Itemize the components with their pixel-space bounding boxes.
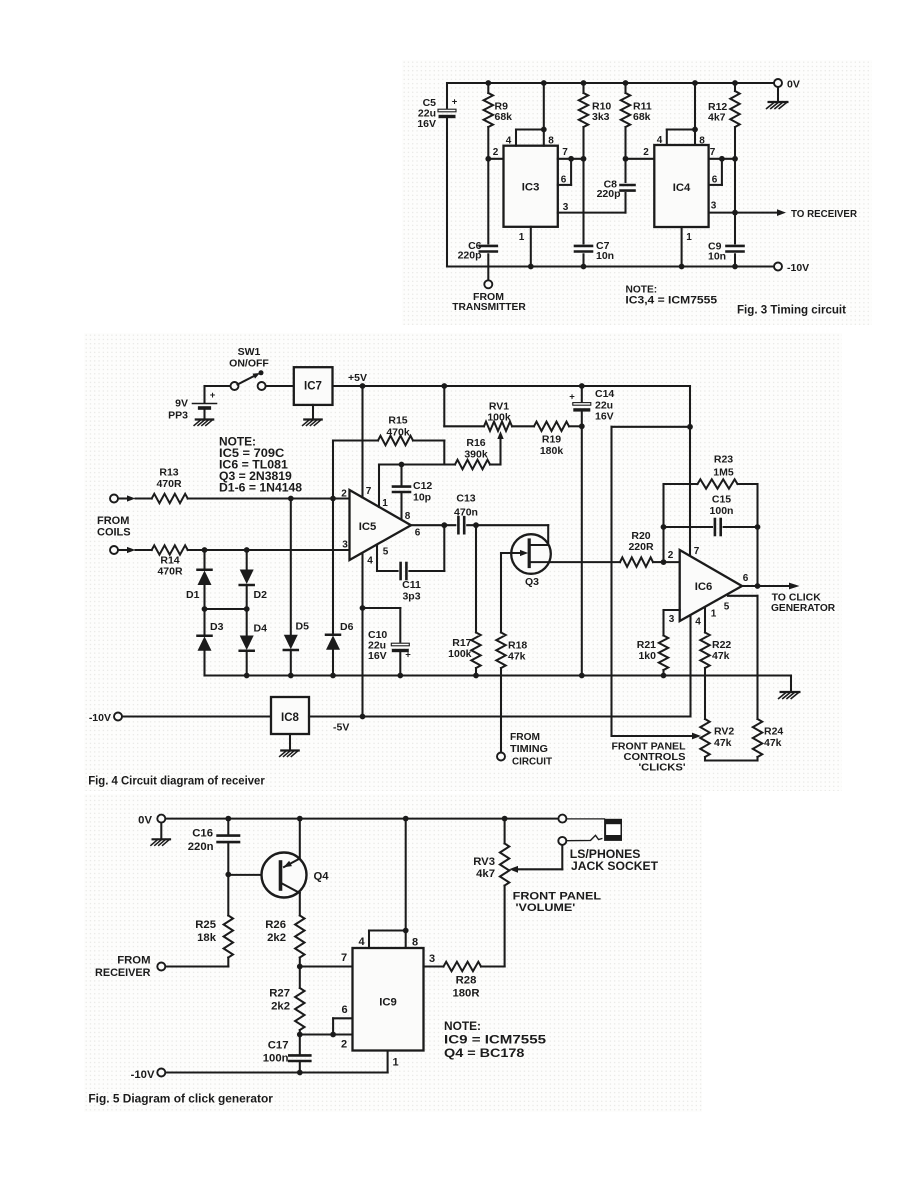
capacitor C5 xyxy=(417,83,457,267)
capacitor C11 xyxy=(377,525,444,602)
wire pin6 IC3 xyxy=(558,159,571,186)
svg-text:COILS: COILS xyxy=(97,527,131,539)
wire pin2 IC4 xyxy=(626,147,655,159)
svg-text:3: 3 xyxy=(711,201,717,212)
ground battery xyxy=(194,420,213,426)
capacitor C14 xyxy=(569,386,614,426)
svg-text:R19: R19 xyxy=(542,434,561,446)
label pin8 IC5 xyxy=(405,511,411,522)
svg-text:3: 3 xyxy=(669,614,675,625)
IC IC7 regulator xyxy=(294,367,333,405)
terminal -10V fig4 xyxy=(89,712,122,724)
svg-text:3p3: 3p3 xyxy=(402,591,420,603)
wire pin4 IC6 xyxy=(691,615,702,717)
svg-text:2: 2 xyxy=(341,1039,347,1051)
svg-text:8: 8 xyxy=(548,136,554,147)
terminal FROM RECEIVER xyxy=(95,955,228,979)
capacitor C17 xyxy=(263,1035,311,1076)
svg-text:R24: R24 xyxy=(764,726,783,738)
svg-text:4: 4 xyxy=(506,136,512,147)
wire comp node xyxy=(379,441,455,468)
svg-text:3: 3 xyxy=(342,540,348,551)
resistor R20 xyxy=(620,530,666,567)
svg-text:2: 2 xyxy=(341,489,347,500)
svg-text:220n: 220n xyxy=(188,841,214,853)
svg-text:NOTE:: NOTE: xyxy=(444,1019,481,1033)
svg-text:16V: 16V xyxy=(595,411,614,423)
svg-text:D6: D6 xyxy=(340,621,354,633)
svg-text:10n: 10n xyxy=(596,250,614,262)
svg-text:R28: R28 xyxy=(456,975,477,987)
svg-text:8: 8 xyxy=(412,937,418,949)
svg-text:100n: 100n xyxy=(263,1053,289,1065)
svg-text:6: 6 xyxy=(712,175,718,186)
svg-text:IC4: IC4 xyxy=(673,182,691,194)
svg-text:IC7: IC7 xyxy=(304,381,322,393)
resistor R10 xyxy=(579,83,612,159)
svg-text:470R: 470R xyxy=(156,478,182,490)
resistor R11 xyxy=(621,83,652,162)
svg-text:C13: C13 xyxy=(456,493,475,505)
svg-text:2: 2 xyxy=(668,550,674,561)
svg-text:Fig. 4 Circuit diagram of rece: Fig. 4 Circuit diagram of receiver xyxy=(88,776,265,788)
svg-text:D2: D2 xyxy=(254,589,268,601)
svg-text:3k3: 3k3 xyxy=(592,111,610,123)
switch jack contact xyxy=(567,835,602,840)
svg-text:TO RECEIVER: TO RECEIVER xyxy=(791,208,857,220)
capacitor C12 xyxy=(393,465,432,520)
resistor R19 xyxy=(534,422,585,457)
resistor R17 xyxy=(448,525,481,675)
svg-text:6: 6 xyxy=(415,528,421,539)
svg-text:7: 7 xyxy=(710,147,716,158)
capacitor C7 xyxy=(575,159,614,270)
svg-text:JACK SOCKET: JACK SOCKET xyxy=(571,859,659,873)
svg-text:RECEIVER: RECEIVER xyxy=(95,967,151,979)
svg-text:2k2: 2k2 xyxy=(271,1001,290,1013)
svg-text:C16: C16 xyxy=(192,828,213,840)
svg-text:R27: R27 xyxy=(269,988,290,1000)
svg-text:470k: 470k xyxy=(386,427,410,439)
node 0V rail fig5 xyxy=(166,816,558,822)
ground right fig4 xyxy=(779,676,800,699)
svg-text:0V: 0V xyxy=(138,815,152,827)
wire xyxy=(266,385,294,387)
svg-text:Q4: Q4 xyxy=(313,871,329,883)
terminal 0V xyxy=(774,79,800,91)
svg-text:1: 1 xyxy=(686,232,692,243)
label pin6 IC5 xyxy=(415,528,421,539)
svg-text:IC9 = ICM7555: IC9 = ICM7555 xyxy=(444,1033,546,1047)
svg-text:100n: 100n xyxy=(710,505,734,517)
svg-text:D3: D3 xyxy=(210,621,224,633)
svg-text:5: 5 xyxy=(383,547,389,558)
label TO RECEIVER xyxy=(791,208,857,220)
label pin2 IC5 xyxy=(341,489,347,500)
wire pins 4-8 IC9 xyxy=(358,819,418,949)
svg-text:2: 2 xyxy=(493,147,499,158)
wire pin1 IC6 xyxy=(705,607,717,633)
svg-text:D1-6 = 1N4148: D1-6 = 1N4148 xyxy=(219,480,302,494)
label FROM COILS xyxy=(97,515,131,539)
capacitor C16 xyxy=(188,819,239,878)
diode D5 xyxy=(284,499,309,676)
wire pin7 IC9 xyxy=(300,952,353,967)
svg-text:C17: C17 xyxy=(268,1040,289,1052)
wire pin7 IC3 xyxy=(558,147,587,162)
svg-text:8: 8 xyxy=(405,511,411,522)
svg-text:IC6: IC6 xyxy=(695,581,713,593)
svg-text:-10V: -10V xyxy=(787,262,809,274)
node ground rail fig4 xyxy=(205,673,792,679)
resistor R28 xyxy=(444,962,505,1000)
svg-text:R25: R25 xyxy=(195,919,216,931)
wire C14 to ground rail xyxy=(581,426,583,675)
svg-text:D1: D1 xyxy=(186,589,200,601)
svg-text:-10V: -10V xyxy=(131,1069,155,1081)
resistor R27 xyxy=(269,967,304,1038)
wire jack sleeve xyxy=(567,818,605,820)
svg-text:RV3: RV3 xyxy=(473,856,495,868)
svg-text:3: 3 xyxy=(563,202,569,213)
svg-text:PP3: PP3 xyxy=(168,410,188,422)
wire pin7 IC4 xyxy=(709,147,738,162)
svg-text:18k: 18k xyxy=(197,932,217,944)
svg-text:8: 8 xyxy=(699,136,705,147)
note IC3,4 xyxy=(625,285,717,307)
svg-text:R15: R15 xyxy=(388,415,407,427)
svg-text:IC9: IC9 xyxy=(379,997,397,1009)
svg-text:-10V: -10V xyxy=(89,712,111,724)
capacitor C10 xyxy=(360,605,412,675)
svg-text:10n: 10n xyxy=(708,251,726,263)
resistor R25 xyxy=(195,875,233,967)
resistor R16 xyxy=(455,437,501,469)
svg-text:6: 6 xyxy=(341,1004,347,1016)
potentiometer RV1 xyxy=(444,386,534,431)
transistor Q4 PNP xyxy=(262,819,330,916)
diode D4 xyxy=(240,609,267,676)
svg-text:GENERATOR: GENERATOR xyxy=(771,603,836,614)
svg-text:470R: 470R xyxy=(157,566,183,578)
capacitor C15 xyxy=(664,494,761,536)
svg-text:47k: 47k xyxy=(714,737,732,749)
resistor R18 xyxy=(496,553,527,752)
wire pins 4-8 IC3 xyxy=(506,83,555,147)
svg-text:D5: D5 xyxy=(296,621,310,633)
resistor R24 xyxy=(705,719,783,761)
svg-text:2: 2 xyxy=(643,147,649,158)
potentiometer RV2 xyxy=(700,719,734,761)
label NOTE click generator xyxy=(444,1019,546,1060)
diode D3 xyxy=(198,609,224,676)
svg-text:1: 1 xyxy=(392,1057,398,1069)
node +5V rail xyxy=(333,383,691,389)
IC IC3 xyxy=(504,146,558,227)
terminal jack sleeve contact xyxy=(558,815,566,823)
wire pin1 IC4 xyxy=(679,227,693,269)
svg-text:7: 7 xyxy=(562,147,568,158)
node -5V rail xyxy=(309,715,691,717)
IC op-amp U IC6 xyxy=(680,550,742,621)
svg-text:47k: 47k xyxy=(508,651,526,663)
svg-text:16V: 16V xyxy=(417,118,436,130)
label LS/PHONES JACK SOCKET xyxy=(570,847,659,873)
svg-text:C12: C12 xyxy=(413,480,432,492)
svg-text:3: 3 xyxy=(429,953,435,965)
wire RV1 wiper xyxy=(497,431,503,465)
capacitor C9 xyxy=(708,241,744,270)
ground 0V fig5 xyxy=(151,823,170,845)
caption Fig 4 xyxy=(88,776,265,788)
wire pins 4-8 IC4 xyxy=(657,83,706,147)
svg-text:Fig. 3 Timing circuit: Fig. 3 Timing circuit xyxy=(737,304,846,317)
svg-text:220R: 220R xyxy=(628,541,654,553)
svg-text:7: 7 xyxy=(694,546,700,557)
wire pin6 IC4 xyxy=(709,159,722,186)
node pin3 line junctions xyxy=(202,547,250,553)
svg-text:1: 1 xyxy=(711,609,717,620)
svg-text:4: 4 xyxy=(358,936,365,948)
svg-text:IC8: IC8 xyxy=(281,712,300,724)
label FRONT PANEL VOLUME xyxy=(513,891,602,915)
potentiometer RV3 xyxy=(473,819,509,967)
svg-text:4: 4 xyxy=(657,135,663,146)
IC op-amp U IC5 xyxy=(350,490,412,560)
diode D1 xyxy=(186,550,212,609)
node 0V rail junctions xyxy=(485,80,737,86)
capacitor C13 xyxy=(411,493,548,534)
wire D1-D2 node xyxy=(202,606,250,612)
svg-text:R26: R26 xyxy=(265,919,286,931)
svg-text:68k: 68k xyxy=(633,111,651,123)
svg-text:IC3,4 = ICM7555: IC3,4 = ICM7555 xyxy=(625,294,717,306)
wire to RV2 wiper xyxy=(612,427,702,740)
wire pin7 IC5 xyxy=(363,386,372,498)
svg-text:100k: 100k xyxy=(487,412,511,424)
terminal input upper FROM COILS xyxy=(110,495,136,503)
wire pin2 IC6 xyxy=(664,550,680,562)
diode D2 xyxy=(240,550,267,609)
IC IC4 xyxy=(654,145,708,227)
terminal -10V xyxy=(774,262,809,274)
svg-text:7: 7 xyxy=(341,952,347,964)
wire pin1 IC5 xyxy=(379,465,388,510)
svg-text:9V: 9V xyxy=(175,398,188,410)
svg-text:220p: 220p xyxy=(458,250,482,262)
capacitor C6 xyxy=(458,159,497,280)
svg-text:6: 6 xyxy=(743,573,749,584)
terminal -10V fig5 xyxy=(131,1069,166,1082)
svg-text:Q4 = BC178: Q4 = BC178 xyxy=(444,1046,525,1060)
svg-text:R23: R23 xyxy=(714,454,733,466)
svg-text:+: + xyxy=(405,650,411,661)
wire pin3 IC3 xyxy=(558,193,626,213)
resistor R26 xyxy=(265,916,304,970)
svg-text:6: 6 xyxy=(561,175,567,186)
svg-text:TRANSMITTER: TRANSMITTER xyxy=(452,301,526,313)
svg-text:4: 4 xyxy=(695,617,701,628)
node pin2 line junctions xyxy=(288,496,336,502)
svg-text:4: 4 xyxy=(367,556,373,567)
caption Fig 5 xyxy=(88,1092,273,1106)
label FRONT PANEL CONTROLS CLICKS xyxy=(612,742,686,774)
wire pin5 IC6 xyxy=(724,596,758,719)
resistor R15 xyxy=(333,415,444,499)
svg-text:Fig. 5 Diagram of click genera: Fig. 5 Diagram of click generator xyxy=(88,1092,273,1106)
jack socket symbol xyxy=(604,819,622,841)
battery 9V PP3 xyxy=(168,386,216,422)
wire pin2 IC3 xyxy=(485,147,503,162)
resistor R21 xyxy=(637,636,668,676)
wire xyxy=(205,385,231,387)
resistor R12 xyxy=(708,83,740,243)
wire feedback node xyxy=(661,524,667,562)
wire pin3 IC6 xyxy=(664,610,680,636)
svg-text:IC3: IC3 xyxy=(522,182,540,194)
svg-text:1k0: 1k0 xyxy=(638,650,656,662)
resistor R13 xyxy=(136,467,350,504)
svg-text:1: 1 xyxy=(519,232,525,243)
svg-text:Q3: Q3 xyxy=(525,576,539,588)
label -5V xyxy=(333,722,349,734)
ground at 0V xyxy=(767,87,788,108)
terminal jack tip xyxy=(558,837,566,845)
svg-text:R16: R16 xyxy=(466,437,485,449)
label +5V xyxy=(348,372,367,384)
IC IC9 xyxy=(353,948,424,1051)
wire output IC6 xyxy=(742,527,800,589)
svg-text:-5V: -5V xyxy=(333,722,349,734)
svg-text:'CLICKS': 'CLICKS' xyxy=(639,763,686,774)
svg-text:C14: C14 xyxy=(595,388,614,400)
svg-text:16V: 16V xyxy=(368,650,387,662)
svg-text:68k: 68k xyxy=(495,111,513,123)
terminal FROM TIMING CIRCUIT xyxy=(497,731,553,768)
svg-text:D4: D4 xyxy=(254,623,268,635)
IC IC8 regulator xyxy=(271,697,309,734)
svg-text:FRONT PANEL: FRONT PANEL xyxy=(513,891,602,903)
svg-text:220p: 220p xyxy=(597,188,621,200)
svg-text:100k: 100k xyxy=(448,648,472,660)
svg-text:47k: 47k xyxy=(764,737,782,749)
svg-text:RV2: RV2 xyxy=(714,726,734,738)
wire +5V corner to IC6 pin7 xyxy=(612,386,700,557)
svg-text:5: 5 xyxy=(724,602,730,613)
resistor R23 xyxy=(664,454,758,528)
svg-text:'VOLUME': 'VOLUME' xyxy=(516,902,576,914)
svg-text:2k2: 2k2 xyxy=(267,932,286,944)
svg-text:+: + xyxy=(210,390,216,401)
svg-text:7: 7 xyxy=(366,486,372,497)
svg-text:TO CLICK: TO CLICK xyxy=(772,592,822,603)
wire xyxy=(447,82,778,84)
wire pin4 IC5 xyxy=(360,553,374,719)
svg-text:C11: C11 xyxy=(402,579,421,591)
diode D6 xyxy=(326,499,354,676)
wire pin3 IC4 to receiver xyxy=(709,201,786,217)
svg-text:+: + xyxy=(452,97,458,108)
wire pin1 IC3 xyxy=(519,227,534,270)
svg-text:0V: 0V xyxy=(787,79,800,91)
svg-text:SW1: SW1 xyxy=(238,346,261,358)
resistor R9 xyxy=(484,83,513,159)
wire xyxy=(122,715,271,717)
svg-text:IC5: IC5 xyxy=(359,521,377,533)
capacitor C8 xyxy=(597,159,635,200)
terminal 0V fig5 xyxy=(138,815,165,827)
label NOTE receiver xyxy=(219,434,302,494)
wire -10V rail fig5 xyxy=(166,1051,399,1073)
switch SW1 xyxy=(229,346,269,390)
svg-text:180R: 180R xyxy=(452,988,479,1000)
svg-text:+5V: +5V xyxy=(348,372,367,384)
svg-text:10p: 10p xyxy=(413,492,431,504)
svg-text:47k: 47k xyxy=(712,650,730,662)
transistor Q3 JFET xyxy=(501,525,620,588)
svg-text:4k7: 4k7 xyxy=(476,868,495,880)
terminal input lower xyxy=(110,546,136,554)
svg-text:R13: R13 xyxy=(159,467,178,479)
terminal FROM TRANSMITTER xyxy=(452,280,526,313)
svg-text:4k7: 4k7 xyxy=(708,112,726,124)
wire RV3 wiper from jack xyxy=(509,845,562,873)
svg-text:CIRCUIT: CIRCUIT xyxy=(512,756,553,768)
ground IC8 xyxy=(280,734,299,757)
resistor R14 xyxy=(136,545,350,577)
svg-text:390k: 390k xyxy=(464,449,488,461)
svg-text:FROM: FROM xyxy=(117,955,150,967)
wire base Q4 xyxy=(228,874,280,876)
svg-text:FRONT PANEL: FRONT PANEL xyxy=(612,742,686,753)
svg-text:FROM: FROM xyxy=(97,515,129,527)
wire xyxy=(447,265,778,267)
resistor R22 xyxy=(700,633,731,720)
svg-text:1: 1 xyxy=(382,498,388,509)
svg-text:FROM: FROM xyxy=(510,731,540,743)
label TO CLICK GENERATOR xyxy=(771,592,836,613)
svg-text:C15: C15 xyxy=(712,494,731,506)
svg-text:TIMING: TIMING xyxy=(510,743,548,755)
caption Fig 3 xyxy=(737,304,846,317)
label pin3 IC5 xyxy=(342,540,348,551)
ground IC7 xyxy=(303,405,322,426)
svg-text:ON/OFF: ON/OFF xyxy=(229,358,269,370)
svg-text:+: + xyxy=(569,392,575,403)
svg-text:470n: 470n xyxy=(454,507,478,519)
svg-text:180k: 180k xyxy=(540,445,564,457)
svg-text:1M5: 1M5 xyxy=(713,467,734,479)
wire pin3 IC9 xyxy=(424,953,444,967)
svg-text:CONTROLS: CONTROLS xyxy=(624,752,686,763)
wire pins 2-6 IC9 xyxy=(300,1004,353,1051)
